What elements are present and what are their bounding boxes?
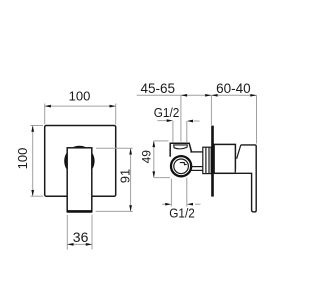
pipe to wall: lower line a — [191, 166, 203, 168]
wall plate side view — [211, 126, 214, 197]
mounting plate front view — [45, 126, 116, 197]
dimension 49: extension lines — [154, 140, 169, 142]
G1/2 bottom: left arrow — [162, 203, 166, 205]
arrow at handle end pointing right — [250, 94, 256, 97]
flange stack — [203, 147, 211, 173]
G1/2 bottom: extension lines — [170, 179, 172, 207]
G1/2 top: extension lines down to cap — [172, 121, 174, 142]
dimension 100 top: arrows — [45, 105, 51, 108]
rosette circle behind handle — [66, 147, 94, 175]
extension line handle end — [256, 95, 258, 143]
dimension 36: extension lines — [66, 215, 68, 250]
dimension 91: arrows — [129, 148, 132, 154]
svg-text:49: 49 — [140, 150, 154, 164]
dimension 100 left: extension lines — [31, 125, 44, 127]
dimension 100 top: extension lines — [44, 104, 46, 125]
handle front view — [67, 148, 92, 212]
handle angled face line — [237, 145, 241, 159]
valve cap — [170, 143, 192, 157]
svg-text:100: 100 — [15, 148, 30, 170]
dimension 91: dimension line — [130, 148, 132, 211]
extension line wall face — [210, 95, 212, 125]
handle side view — [236, 145, 257, 212]
svg-text:60-40: 60-40 — [216, 81, 251, 96]
dimension 91: extension lines — [96, 147, 133, 149]
arrow at valve centre pointing left — [181, 94, 187, 97]
valve cap inner window — [174, 145, 188, 149]
dimension 36: arrows — [67, 243, 73, 246]
dimension 36: dimension line — [67, 243, 92, 245]
arrows at wall face — [205, 94, 211, 97]
pipe to wall: lower line b — [191, 169, 203, 171]
dimension 100 top: dimension line — [45, 105, 116, 107]
dimension 49: dimension line — [153, 141, 155, 178]
svg-text:45-65: 45-65 — [141, 81, 176, 96]
dimension 100 left: arrows — [31, 126, 34, 132]
cartridge step detail — [180, 163, 187, 165]
handle bottom thick edge — [67, 210, 93, 213]
valve body outer circle — [171, 156, 191, 176]
svg-text:100: 100 — [69, 88, 91, 103]
pipe to wall: upper line — [190, 151, 203, 153]
svg-text:36: 36 — [73, 229, 89, 245]
dimension 100 left: dimension line — [32, 126, 34, 197]
svg-text:G1/2: G1/2 — [154, 105, 180, 120]
G1/2 top: right arrow pointing left — [187, 120, 193, 123]
valve body inner circle — [174, 159, 189, 174]
extension line valve centre — [180, 95, 182, 141]
cartridge housing cylinder — [214, 144, 235, 173]
svg-text:91: 91 — [118, 169, 133, 183]
top dimension line 45-65 / 60-40 — [137, 94, 257, 96]
svg-text:G1/2: G1/2 — [169, 206, 195, 221]
dimension 49: arrows — [152, 141, 155, 147]
G1/2 top: leader with arrow right — [158, 120, 168, 122]
G1/2 bottom: right arrow — [187, 203, 193, 206]
